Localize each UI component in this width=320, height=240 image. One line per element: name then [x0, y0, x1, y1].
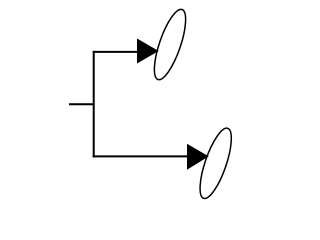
- arrowhead top: [137, 39, 159, 64]
- antenna ellipse bottom: [194, 125, 238, 202]
- wire bottom branch: [93, 155, 188, 157]
- wire input stub: [69, 103, 95, 105]
- arrowhead bottom: [187, 144, 209, 170]
- wire vertical splitter: [93, 51, 95, 157]
- wire top branch: [93, 51, 138, 53]
- antenna ellipse top: [148, 6, 192, 83]
